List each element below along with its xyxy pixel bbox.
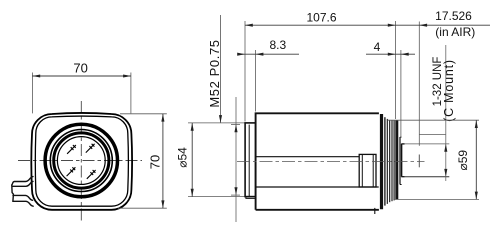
svg-text:⌀54: ⌀54: [176, 147, 190, 168]
svg-text:(in AIR): (in AIR): [435, 25, 475, 39]
svg-text:M52 P0.75: M52 P0.75: [207, 39, 222, 107]
svg-text:4: 4: [374, 40, 381, 54]
svg-text:107.6: 107.6: [306, 11, 336, 25]
svg-text:⌀59: ⌀59: [456, 150, 470, 171]
svg-text:17.526: 17.526: [435, 9, 472, 23]
svg-text:70: 70: [148, 155, 163, 169]
svg-text:8.3: 8.3: [269, 38, 286, 52]
svg-text:(C Mount): (C Mount): [442, 59, 456, 122]
svg-text:70: 70: [73, 61, 87, 76]
